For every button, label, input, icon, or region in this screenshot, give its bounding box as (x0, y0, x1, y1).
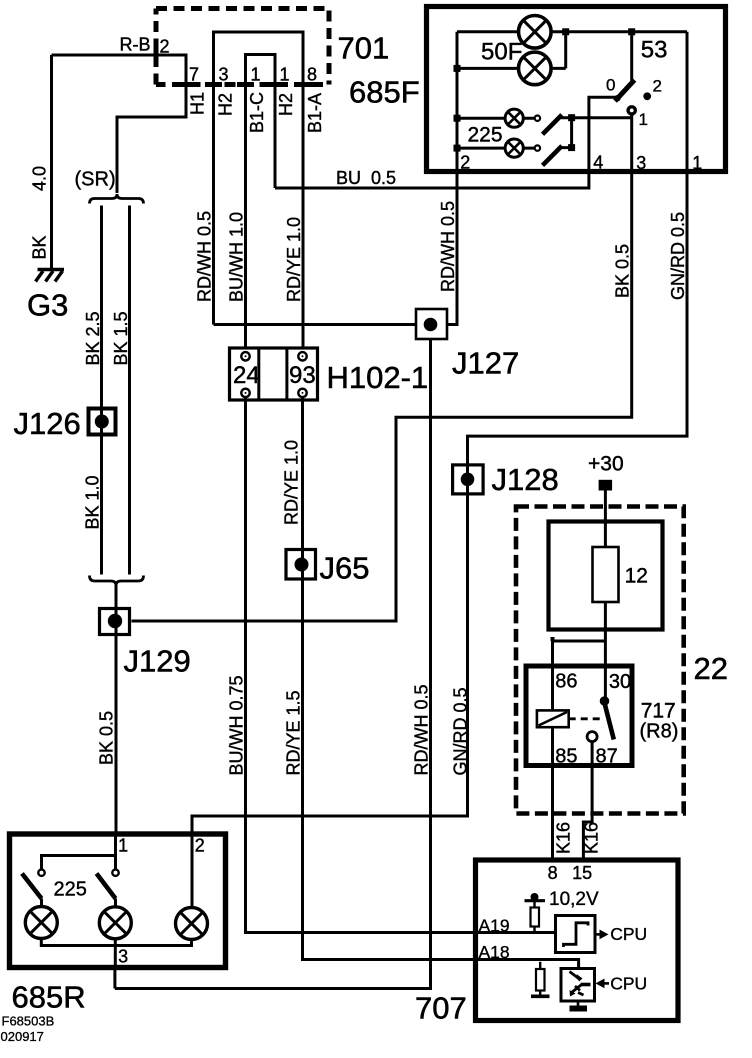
svg-text:3: 3 (636, 153, 646, 173)
svg-text:BK 0.5: BK 0.5 (97, 711, 117, 765)
junction J128 (453, 465, 484, 494)
svg-text:1: 1 (692, 153, 702, 173)
switch blade left 685R (22, 874, 42, 899)
box 685R (10, 834, 226, 968)
svg-text:86: 86 (555, 671, 577, 693)
svg-text:50F: 50F (481, 39, 522, 66)
wire fuse to relay pin30 (604, 602, 607, 701)
contact ring left 685R (38, 870, 44, 876)
svg-text:87: 87 (596, 746, 618, 768)
splice (SR) brace (90, 194, 144, 204)
svg-text:BU 0.5: BU 0.5 (336, 168, 396, 188)
svg-text:F68503B: F68503B (2, 1014, 55, 1029)
svg-text:B1-A: B1-A (305, 93, 325, 133)
optocoupler transistor symbol (570, 972, 591, 997)
dashed box 22 (516, 507, 684, 814)
svg-text:1: 1 (118, 836, 128, 856)
svg-text:GN/RD 0.5: GN/RD 0.5 (451, 687, 471, 775)
lamp bottom bus 685R (41, 939, 191, 946)
ground G3 (36, 270, 65, 282)
svg-text:3: 3 (118, 947, 128, 967)
connector H102-1 (230, 348, 318, 400)
rotated wire labels (30, 92, 689, 854)
svg-text:701: 701 (338, 31, 390, 66)
pin tick 1 H2 (266, 82, 284, 87)
junction J129 (100, 609, 130, 635)
relay contact 30 pivot (600, 696, 610, 706)
svg-text:J128: J128 (492, 462, 559, 497)
wire GN/RD 0.5 685F pin1 to J128 to 685R pin2 (192, 171, 687, 834)
splice brace above J129 (90, 576, 144, 586)
svg-text:85: 85 (555, 746, 577, 768)
comparator U1 box (556, 916, 596, 953)
svg-text:R-B: R-B (120, 35, 151, 55)
chassis ground below optocoupler (577, 1002, 580, 1006)
svg-text:2: 2 (195, 836, 205, 856)
svg-text:H1: H1 (188, 92, 208, 115)
svg-text:225: 225 (54, 879, 87, 901)
svg-text:225: 225 (468, 124, 503, 147)
svg-text:B1-C: B1-C (247, 92, 267, 133)
svg-text:A18: A18 (479, 942, 510, 962)
wire 685F pin2 left vertical (456, 32, 459, 325)
connector 701 dashed box (156, 9, 329, 85)
svg-text:K16: K16 (554, 822, 574, 854)
fuse 12 box (549, 522, 663, 630)
svg-text:BK: BK (30, 235, 50, 259)
svg-text:A19: A19 (479, 916, 510, 936)
box 685F (427, 7, 726, 172)
svg-text:G3: G3 (27, 288, 68, 323)
svg-text:BK 2.5: BK 2.5 (83, 311, 103, 365)
svg-text:H102-1: H102-1 (327, 360, 429, 395)
svg-text:CPU: CPU (610, 924, 647, 944)
svg-text:8: 8 (548, 863, 558, 883)
wire 701 H2 pin3 / B1-A pin8 solid loop (214, 32, 304, 348)
wire 225 lamps feed row1 (457, 117, 534, 120)
svg-text:7: 7 (189, 65, 199, 85)
wire BU 0.5 to 685F pin 4 (275, 97, 616, 188)
wire RD/WH 0.5 J127 down to 685R pin3 (115, 339, 431, 989)
lamp 685R left (25, 907, 57, 939)
svg-text:12: 12 (625, 565, 648, 588)
power +30 terminal (599, 480, 613, 491)
junction J126 (89, 409, 116, 435)
wire branch to relay pin86 (553, 641, 606, 710)
wire BK 2.5 (100, 206, 103, 575)
relay blade (605, 703, 614, 740)
wire lamp join vertical (564, 32, 567, 69)
svg-text:3: 3 (219, 65, 229, 85)
wire 685R pin1 inside (42, 834, 116, 869)
wire relay 85 to 707 pin 8 (K16) (551, 727, 554, 857)
svg-text:93: 93 (289, 362, 316, 389)
wire contact1 to pin 3 (630, 114, 633, 171)
lamp 685R center (99, 907, 131, 939)
pin tick 2 (701 left edge) (154, 46, 159, 64)
svg-text:707: 707 (415, 991, 467, 1026)
svg-text:RD/WH 0.5: RD/WH 0.5 (195, 211, 215, 302)
wire relay 87 to 707 pin 15 (K16) (583, 742, 592, 858)
wire 685F top row (457, 30, 687, 33)
svg-text:685F: 685F (349, 75, 420, 110)
switch blade center 685R (97, 874, 116, 899)
svg-text:24: 24 (233, 362, 260, 389)
svg-text:4: 4 (593, 153, 603, 173)
svg-text:(SR): (SR) (75, 169, 116, 191)
svg-text:685R: 685R (12, 980, 86, 1015)
svg-text:J129: J129 (124, 644, 191, 679)
junction J127 (416, 309, 447, 339)
wire RD/WH 0.5 685F pin2 to J127 (447, 173, 457, 325)
wire 685F second row (457, 67, 566, 70)
contact ring lower 225 (535, 145, 540, 150)
svg-text:(R8): (R8) (640, 721, 679, 743)
wire 685F pin1 right vertical (686, 32, 689, 436)
wire RD/YE H102 pin93 down through J65 to 707 A18 (303, 397, 579, 967)
svg-text:4.0: 4.0 (30, 166, 50, 191)
switch blade upper 225 (543, 115, 562, 135)
box 707 (476, 860, 679, 1021)
svg-text:RD/YE 1.0: RD/YE 1.0 (284, 217, 304, 302)
svg-text:8: 8 (307, 65, 317, 85)
switch blade lower 225 (543, 146, 562, 166)
svg-text:J65: J65 (320, 551, 370, 586)
blade stubs to lamps (42, 899, 116, 907)
svg-text:RD/YE 1.5: RD/YE 1.5 (284, 690, 304, 775)
switch 53 feed (630, 32, 633, 82)
lamp 225 lower (505, 139, 523, 157)
svg-text:53: 53 (641, 37, 668, 64)
svg-text:J127: J127 (452, 346, 519, 381)
relay 717 (R8) box (526, 666, 632, 766)
svg-text:J126: J126 (14, 406, 81, 441)
svg-text:BU/WH 1.0: BU/WH 1.0 (227, 212, 247, 302)
svg-text:BK 1.0: BK 1.0 (83, 475, 103, 529)
svg-text:020917: 020917 (1, 1029, 44, 1044)
wire BK 4.0 to ground (50, 55, 53, 269)
pin tick 1 B1-C (237, 82, 254, 87)
svg-text:717: 717 (641, 700, 676, 723)
contact ring upper 225 (535, 116, 540, 121)
junction J65 (286, 550, 316, 580)
svg-text:H2: H2 (276, 93, 296, 116)
wire 685R pin3 stub (113, 967, 116, 989)
wire 685R pin2 inside (191, 834, 194, 908)
wire +30 to fuse 12 (604, 491, 607, 548)
junction tick at 86 branch (551, 637, 555, 641)
lamp 50F upper (519, 16, 552, 49)
pin tick 8 (294, 82, 312, 87)
junction squares 685F (454, 28, 636, 151)
switch 53 contact 1 (628, 107, 635, 114)
relay actuator dashed link (569, 717, 600, 720)
switch 53 contact 2 (643, 92, 651, 100)
svg-text:RD/WH 0.5: RD/WH 0.5 (438, 201, 458, 292)
relay contact 87 (587, 732, 597, 742)
fuse 12 element (593, 547, 619, 602)
svg-text:1: 1 (251, 65, 261, 85)
wire BK 1.0 merged to J129 (115, 586, 118, 832)
svg-text:0: 0 (606, 76, 615, 95)
pull-down resistor on A18 (531, 962, 550, 997)
pin tick 3 (205, 82, 222, 87)
arrow from CPU (A18) (604, 982, 609, 985)
lamp 50F lower (519, 52, 552, 85)
svg-text:K16: K16 (582, 822, 602, 854)
wire BK 0.5 685F pin3 to J129 (132, 171, 632, 621)
arrow to CPU (A19) (595, 933, 600, 936)
pin tick 7 (177, 82, 195, 87)
svg-text:CPU: CPU (610, 974, 647, 994)
step symbol (564, 923, 589, 947)
svg-text:BU/WH 0.75: BU/WH 0.75 (227, 675, 247, 775)
svg-text:15: 15 (572, 863, 592, 883)
wire 685R pin3 (114, 946, 117, 968)
svg-text:2: 2 (653, 77, 662, 96)
wire 701 B1-C pin1 / H2 pin1 loop (246, 55, 276, 348)
wire R-B to pin 2 and down through pin 7 H1 (52, 55, 187, 193)
wire BK 1.5 (128, 206, 131, 575)
svg-text:BK 0.5: BK 0.5 (613, 244, 633, 298)
wire 225 lamps feed row2 (457, 147, 534, 150)
svg-text:GN/RD 0.5: GN/RD 0.5 (668, 212, 688, 300)
supply 10,2V symbol (525, 893, 546, 933)
wire blades join to contact 1 (561, 118, 632, 148)
contact ring center 685R (112, 870, 118, 876)
svg-text:1: 1 (280, 65, 290, 85)
optocoupler U2 box (561, 969, 595, 1002)
switch 53 contact 0 dot (614, 95, 620, 101)
svg-text:RD/WH 0.5: RD/WH 0.5 (412, 684, 432, 775)
svg-text:+30: +30 (588, 453, 624, 476)
svg-text:2: 2 (460, 153, 470, 173)
wire RD/WH 0.5 701-pin3 to J127 (214, 323, 417, 326)
svg-text:22: 22 (694, 651, 728, 686)
svg-text:RD/YE 1.0: RD/YE 1.0 (282, 440, 302, 525)
svg-text:BK 1.5: BK 1.5 (111, 311, 131, 365)
svg-text:10,2V: 10,2V (549, 889, 599, 910)
wire BU/WH 0.75 H102 pin24 to 707 A19 (246, 397, 555, 933)
lamp 225 upper (505, 109, 523, 127)
switch 53 blade (615, 80, 635, 101)
lamp 685R right (176, 908, 208, 940)
svg-text:30: 30 (609, 671, 631, 693)
relay coil (537, 710, 569, 727)
svg-text:H2: H2 (216, 93, 236, 116)
svg-text:1: 1 (639, 110, 648, 129)
svg-text:2: 2 (160, 37, 170, 57)
